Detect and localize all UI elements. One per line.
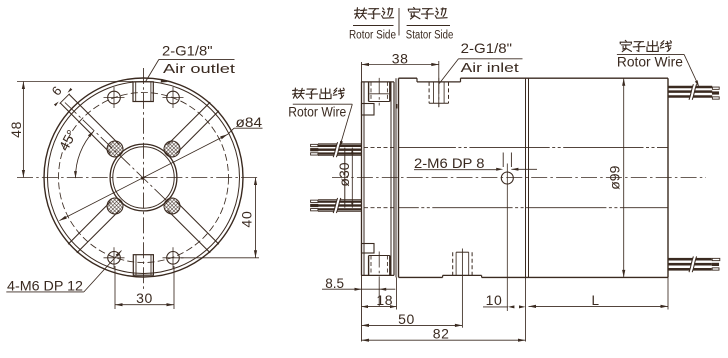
- top air port tab: [133, 82, 153, 102]
- text 82: [433, 325, 450, 341]
- rotor/stator side underline: [353, 25, 450, 27]
- text 10: [486, 292, 503, 308]
- dimension 8.5: [322, 288, 395, 291]
- stator body bottom edge: [399, 275, 669, 277]
- svg-text:38: 38: [392, 51, 409, 67]
- svg-text:Rotor Wire: Rotor Wire: [288, 104, 346, 119]
- label 2-M6 DP 8 leader: [414, 168, 537, 171]
- svg-text:50: 50: [398, 311, 415, 327]
- slot end hole 4 (hatched): [164, 198, 180, 214]
- dimension 18: [362, 277, 397, 309]
- rotor flange left face: [362, 62, 365, 342]
- center bore circle outer: [110, 144, 177, 211]
- dimension 38: [362, 61, 439, 107]
- 45 degree text: [56, 127, 80, 153]
- text 50: [398, 311, 415, 327]
- dimension L: [529, 305, 669, 308]
- alignment pin: [396, 104, 398, 109]
- air inlet leader: [439, 59, 522, 84]
- label 4-M6 DP 12 leader: [6, 251, 121, 292]
- stator wire leader: [684, 54, 699, 86]
- svg-text:82: 82: [433, 325, 450, 341]
- air slot 4 at 45 deg: [168, 202, 219, 253]
- bottom air port tab: [133, 255, 153, 276]
- dimension 82: [362, 339, 526, 342]
- text L: [592, 293, 600, 308]
- bore wall top: [364, 147, 668, 149]
- air outlet leader: [146, 59, 235, 82]
- wire block top: [362, 104, 375, 116]
- rotor wire leader: [340, 104, 353, 147]
- slot width 6 text: [49, 83, 65, 98]
- slot end hole 1 (hatched): [107, 141, 123, 157]
- svg-text:18: 18: [376, 292, 393, 308]
- dimension 50: [362, 324, 463, 327]
- slot axis centerline: [65, 103, 166, 201]
- stator body right face: [667, 78, 669, 309]
- svg-text:2-G1/8": 2-G1/8": [461, 40, 512, 56]
- text Air outlet: [163, 61, 236, 76]
- bolt circle ø84 dashed: [59, 93, 229, 263]
- svg-text:10: 10: [486, 292, 503, 308]
- text 48: [8, 121, 24, 138]
- slot end hole 3 (hatched): [107, 198, 123, 214]
- center bore circle inner: [113, 147, 174, 208]
- svg-text:Air outlet: Air outlet: [163, 61, 236, 76]
- label rotor wire CJK: [293, 88, 345, 99]
- slot width 6 arrows: [54, 88, 72, 106]
- M6 tapped hole 1: [104, 87, 125, 108]
- svg-text:4-M6 DP 12: 4-M6 DP 12: [7, 277, 83, 293]
- text dia 30: [336, 162, 352, 186]
- text 4-M6 DP 12: [7, 277, 83, 293]
- text 18: [376, 292, 393, 308]
- dia 99 dimension: [622, 78, 625, 277]
- svg-text:Stator Side: Stator Side: [406, 30, 454, 42]
- dimension 30: [115, 266, 174, 309]
- rotor wires bottom: [311, 198, 362, 213]
- dia 84 text: [236, 114, 263, 130]
- rotor wire shelf: [293, 103, 353, 105]
- rotor hub face: [344, 148, 346, 208]
- M6 side hole: [501, 153, 513, 312]
- stator wires bottom: [668, 256, 720, 272]
- svg-text:Rotor Side: Rotor Side: [349, 30, 396, 42]
- svg-text:2-G1/8": 2-G1/8": [162, 43, 213, 59]
- left view vertical centerline: [143, 68, 145, 289]
- slot end hole 2 (hatched): [164, 141, 180, 157]
- text 2-G1/8 right: [461, 40, 512, 56]
- svg-text:ø99: ø99: [607, 165, 623, 189]
- text dia 99: [607, 165, 623, 189]
- svg-text:8.5: 8.5: [325, 276, 344, 291]
- dimension 10: [483, 305, 526, 308]
- svg-text:L: L: [592, 293, 600, 308]
- text 2-M6 DP 8: [414, 155, 485, 171]
- text Rotor Wire right: [617, 55, 683, 70]
- text Stator Side: [406, 30, 454, 42]
- text 8.5: [325, 276, 344, 291]
- dimension 48: [17, 82, 133, 178]
- label stator side CJK: [408, 8, 447, 20]
- svg-text:ø30: ø30: [336, 162, 352, 186]
- air slot 1 at 45 deg: [60, 94, 120, 154]
- stator body top edge: [399, 78, 669, 82]
- svg-text:2-M6 DP 8: 2-M6 DP 8: [414, 155, 485, 171]
- text 38: [392, 51, 409, 67]
- internal housing boundary: [526, 78, 529, 341]
- text Air inlet: [461, 60, 520, 75]
- flange inner circle: [48, 82, 240, 274]
- rotor/stator divider: [398, 8, 400, 36]
- text 40: [239, 210, 255, 227]
- right view horizontal centerline: [332, 177, 706, 179]
- M6 tapped hole 4: [163, 247, 184, 268]
- rotor flange outline: [362, 82, 395, 276]
- air slot 3 at 45 deg: [68, 202, 119, 253]
- M6 tapped hole 3: [104, 247, 125, 268]
- svg-text:40: 40: [239, 210, 255, 227]
- flange outer circle: [44, 78, 243, 277]
- dimension 40: [181, 178, 259, 258]
- rotor wires top: [311, 142, 362, 157]
- text 30: [136, 290, 153, 306]
- dia 30 dimension: [351, 148, 354, 208]
- label stator wire CJK: [620, 40, 671, 51]
- text 2-G1/8 left: [162, 43, 213, 59]
- left view horizontal centerline: [17, 177, 259, 179]
- svg-text:30: 30: [136, 290, 153, 306]
- stator body left face: [396, 78, 399, 277]
- M6 tapped hole 2: [163, 87, 184, 108]
- text Rotor Wire left: [288, 104, 346, 119]
- G1/8 air inlet port: [429, 78, 448, 107]
- G1/8 port on flange top: [369, 78, 390, 106]
- svg-text:Air inlet: Air inlet: [461, 60, 520, 75]
- G1/8 bottom body port: [453, 249, 472, 328]
- label rotor side CJK: [355, 8, 394, 19]
- svg-text:48: 48: [8, 121, 24, 138]
- wire block bottom: [362, 244, 375, 254]
- text Rotor Side: [349, 30, 396, 42]
- stator wire shelf: [617, 53, 684, 55]
- svg-text:Rotor Wire: Rotor Wire: [617, 55, 683, 70]
- G1/8 port flange bottom: [369, 252, 390, 280]
- dia 84 dimension line: [59, 128, 262, 220]
- stator wires top: [668, 84, 719, 100]
- svg-text:ø84: ø84: [236, 114, 263, 130]
- air slot 2 at 45 deg: [168, 102, 219, 153]
- 45 degree angle dimension arc: [74, 131, 94, 178]
- bore wall bottom: [364, 207, 668, 209]
